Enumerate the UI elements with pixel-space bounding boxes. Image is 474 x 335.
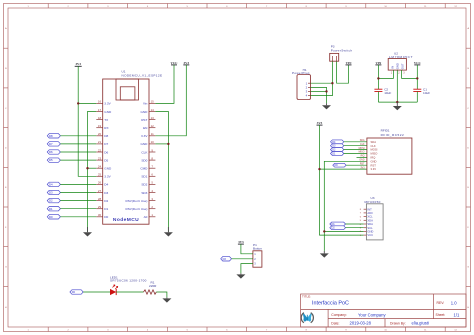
svg-text:14: 14: [151, 108, 155, 112]
svg-text:GND: GND: [104, 167, 112, 171]
U1 pin 2 (RSV(Don&#39;t Use)) right: [125, 205, 155, 211]
svg-text:Company:: Company:: [331, 313, 347, 317]
svg-text:LM78M05CT: LM78M05CT: [389, 55, 413, 59]
wire plug gnd pins: [311, 87, 327, 103]
svg-text:TX: TX: [104, 118, 108, 122]
svg-text:Drawn By:: Drawn By:: [390, 321, 406, 325]
svg-text:D3: D3: [49, 191, 53, 195]
wire VCC to pin15: [155, 65, 174, 104]
svg-text:PowerPlug: PowerPlug: [292, 71, 310, 75]
svg-text:GND: GND: [395, 63, 399, 69]
wire port D8 to U1: [60, 135, 96, 137]
port D2: [47, 198, 60, 202]
power port 3V3 (button): [238, 240, 244, 244]
port D3 (button): [221, 257, 232, 261]
svg-text:IN: IN: [390, 66, 394, 69]
svg-text:D8: D8: [49, 134, 53, 138]
ground (left rail): [83, 227, 92, 237]
U3 pin XCL: [360, 215, 373, 219]
U3 pin SCL: [360, 226, 373, 230]
svg-text:D7: D7: [104, 142, 108, 146]
svg-text:D5: D5: [49, 158, 53, 162]
svg-text:SR75UC06 1200-1700: SR75UC06 1200-1700: [110, 279, 147, 283]
svg-text:GND: GND: [141, 110, 149, 114]
wire port to button pin2: [232, 258, 253, 260]
svg-text:MOSI: MOSI: [359, 148, 365, 150]
svg-text:20: 20: [98, 132, 102, 136]
U1 pin 9 (CLK) right: [141, 148, 155, 154]
svg-text:CLK: CLK: [360, 144, 365, 146]
wire rfid MOSI: [344, 149, 367, 151]
U1 pin 30 (D0) left: [96, 213, 108, 219]
power port VCC (reg output): [414, 61, 422, 65]
U1 pin 11 (3.3V) right: [141, 132, 155, 138]
U1 pin 24 (GND) left: [96, 165, 112, 171]
wire GND rail right: [155, 112, 168, 232]
wire 3V3 to pin11: [155, 65, 186, 136]
svg-text:SD3: SD3: [141, 191, 147, 195]
net label SDA: [360, 139, 365, 142]
wire port D4 to U1: [60, 183, 96, 185]
port D3 (rfid): [331, 144, 344, 148]
wire rfid RST: [346, 164, 367, 166]
U1 pin 13 (RST) right: [141, 116, 155, 122]
port D2 (mpu): [330, 226, 346, 230]
svg-text:MISO: MISO: [371, 152, 378, 156]
junction VIN/C2: [377, 77, 379, 79]
net label MISO: [359, 152, 365, 154]
svg-text:SDA: SDA: [367, 222, 373, 226]
svg-text:3.3V: 3.3V: [104, 102, 111, 106]
svg-text:REV:: REV:: [437, 301, 445, 305]
wire rfid IRQ stub: [357, 156, 367, 158]
U3 pin XDA: [360, 218, 373, 222]
U1 pin 7 (CMD) right: [140, 165, 155, 171]
U1 pin 5 (SD2) right: [141, 181, 155, 187]
svg-text:3V3: 3V3: [360, 167, 365, 169]
svg-text:INT: INT: [367, 207, 372, 211]
svg-text:D0: D0: [104, 215, 108, 219]
RFID1 pin IRQ: [371, 156, 376, 160]
port D4: [47, 182, 60, 186]
junction GND/pin10: [167, 143, 169, 145]
svg-text:3V3: 3V3: [75, 62, 81, 66]
port D0: [47, 215, 60, 219]
svg-text:3.3V: 3.3V: [371, 167, 377, 171]
port D1 (rfid): [331, 152, 344, 156]
svg-text:2019-03-28: 2019-03-28: [350, 321, 372, 326]
wire gnd rail under U2: [378, 70, 417, 102]
power port 3V3 (right): [183, 61, 189, 65]
svg-text:3V3: 3V3: [184, 61, 190, 65]
ground (right rail): [164, 227, 173, 237]
svg-text:G: G: [467, 267, 469, 269]
date cell: [331, 321, 429, 326]
svg-text:1.0: 1.0: [451, 300, 457, 305]
C2 labels: [384, 88, 391, 96]
port D4 (rfid): [331, 140, 344, 144]
svg-text:CMD: CMD: [140, 167, 148, 171]
junction plug pin1: [331, 82, 333, 84]
svg-text:XCL: XCL: [367, 215, 373, 219]
svg-text:16: 16: [98, 100, 102, 104]
svg-text:D4: D4: [49, 183, 53, 187]
svg-text:SDA: SDA: [360, 139, 365, 142]
wire mpu D2: [346, 227, 364, 229]
net label MOSI: [359, 148, 365, 150]
svg-text:MISO: MISO: [359, 152, 365, 154]
sensor U3 MPU6050 body: [366, 204, 383, 240]
svg-text:28: 28: [98, 197, 102, 201]
svg-text:elia.giusti: elia.giusti: [412, 321, 430, 326]
wire VIN to U2 IN: [378, 65, 393, 89]
svg-text:PowerSwitch: PowerSwitch: [331, 48, 353, 52]
junction GND/pin24: [86, 167, 88, 169]
wire port D0 to U1: [60, 216, 96, 218]
svg-text:RST: RST: [360, 163, 365, 165]
ground (button): [236, 273, 245, 278]
svg-text:SCL: SCL: [367, 226, 373, 230]
svg-text:D8: D8: [104, 134, 108, 138]
RFID1 module body: [367, 138, 412, 174]
U3 pin INT: [360, 207, 372, 211]
wire port D6 to U1: [60, 151, 96, 153]
svg-text:RST: RST: [371, 163, 377, 167]
U1 pin 8 (SD0) right: [141, 156, 155, 162]
svg-text:OUT: OUT: [400, 63, 404, 69]
RFID1 pin SDA: [371, 140, 377, 144]
P3 designator: [331, 45, 353, 53]
R1 designator: [149, 281, 157, 289]
U1 pin 20 (D8) left: [96, 132, 108, 138]
port D7: [47, 142, 60, 146]
U3 pin VCC: [360, 233, 373, 237]
wire switch to VIN: [337, 61, 349, 83]
junction U2 GND: [396, 101, 398, 103]
svg-text:GND: GND: [359, 160, 364, 162]
RFID1 pin CLK: [371, 144, 376, 148]
junction VCC/C1: [416, 77, 418, 79]
RFID1 pin 3.3V: [371, 167, 377, 171]
svg-text:IRQ: IRQ: [371, 156, 376, 160]
svg-text:D6: D6: [104, 150, 108, 154]
U1 pin 3 (RSV(Don&#39;t Use)) right: [125, 197, 155, 203]
LED1 designator: [110, 275, 147, 282]
svg-text:12: 12: [151, 124, 155, 128]
company cell: [331, 312, 386, 317]
power port VCC: [171, 61, 179, 65]
U1 pin 25 (3.3V) left: [96, 173, 111, 179]
svg-text:Button: Button: [253, 247, 262, 251]
port D0 (rfid rst): [333, 163, 346, 167]
power port 3V3 (rfid rail): [317, 121, 323, 125]
port D5: [47, 158, 60, 162]
U1 pin 12 (EN) right: [143, 124, 155, 130]
svg-text:25: 25: [98, 173, 102, 177]
wire port to LED1: [83, 291, 110, 293]
svg-text:22: 22: [98, 148, 102, 152]
svg-text:24: 24: [98, 165, 102, 169]
ground (led): [162, 297, 171, 302]
svg-text:D6: D6: [49, 150, 53, 154]
svg-text:G: G: [5, 267, 7, 269]
U3 designator: [365, 196, 381, 204]
svg-text:D0: D0: [49, 215, 53, 219]
svg-text:10uF: 10uF: [384, 91, 391, 95]
svg-text:RST: RST: [141, 118, 147, 122]
net label RST: [360, 163, 365, 165]
svg-text:13: 13: [151, 116, 155, 120]
port D1: [47, 207, 60, 211]
P1 designator: [253, 243, 262, 250]
svg-text:RSV(Don't Use): RSV(Don't Use): [125, 199, 147, 203]
svg-text:MOSI: MOSI: [371, 148, 378, 152]
wire button pin3 to gnd: [241, 264, 253, 274]
wire R1 to gnd: [156, 292, 167, 297]
wire port D5 to U1: [60, 159, 96, 161]
svg-text:19: 19: [98, 124, 102, 128]
wire rfid SDA: [344, 141, 367, 143]
U1 pin 4 (SD3) right: [141, 189, 155, 195]
svg-text:3.3V: 3.3V: [141, 134, 148, 138]
wire rfid MISO: [344, 153, 367, 155]
svg-text:3V3: 3V3: [238, 240, 244, 244]
svg-text:RSV(Don't Use): RSV(Don't Use): [125, 207, 147, 211]
svg-text:D7: D7: [49, 142, 53, 146]
svg-text:21: 21: [98, 140, 102, 144]
U2 pin numbers: [391, 72, 406, 75]
port D8: [47, 134, 60, 138]
svg-text:IRQ: IRQ: [360, 156, 364, 158]
svg-text:SD0: SD0: [141, 158, 147, 162]
wire plug pin1 to switch: [311, 61, 333, 95]
port D0 (led): [70, 290, 83, 294]
svg-text:CLK: CLK: [371, 144, 376, 148]
capacitor C1: [413, 89, 421, 91]
ground (regulator): [393, 102, 402, 110]
svg-text:Interfaccia PoC: Interfaccia PoC: [312, 301, 349, 307]
RFID1 designator: [381, 129, 405, 137]
U1 pin 19 (RX) left: [96, 124, 108, 130]
wire 3V3 to button pin1: [241, 244, 253, 254]
junction gnd/mpu: [323, 230, 325, 232]
svg-text:D5: D5: [104, 158, 108, 162]
wire 3V3 rail (rfid/mpu): [320, 125, 367, 235]
svg-text:RFID_RC522: RFID_RC522: [381, 133, 405, 137]
svg-text:GND: GND: [104, 110, 112, 114]
svg-text:GND: GND: [141, 142, 149, 146]
U3 pin GND: [360, 230, 374, 234]
port D6: [47, 150, 60, 154]
svg-text:NodeMCU: NodeMCU: [113, 217, 139, 223]
power port VIN (reg input): [375, 61, 382, 65]
ground (rfid/mpu rail): [320, 251, 329, 258]
svg-text:15: 15: [151, 100, 155, 104]
U3 pin SDA: [360, 222, 373, 226]
junction 3V3/pin16: [77, 102, 79, 104]
wire port D1 to U1: [60, 208, 96, 210]
wire U2 OUT to VCC: [402, 65, 418, 89]
U1 pin 26 (D4) left: [96, 181, 108, 187]
wire port D7 to U1: [60, 143, 96, 145]
wire gnd rail (rfid/mpu): [324, 161, 367, 251]
svg-text:GND: GND: [371, 159, 377, 163]
svg-text:D2: D2: [49, 199, 53, 203]
svg-text:A0: A0: [144, 215, 148, 219]
U1 pin 17 (GND) left: [96, 108, 112, 114]
U1 pin 21 (D7) left: [96, 140, 108, 146]
svg-text:D2: D2: [104, 199, 108, 203]
U1 pin 27 (D3) left: [96, 189, 108, 195]
svg-text:27: 27: [98, 189, 102, 193]
U1 pin 22 (D6) left: [96, 148, 108, 154]
U1 pin 28 (D2) left: [96, 197, 108, 203]
wire rfid CLK: [344, 145, 367, 147]
svg-text:XDA: XDA: [367, 218, 373, 222]
title text: [302, 295, 349, 307]
svg-text:29: 29: [98, 205, 102, 209]
company logo butterfly: [301, 313, 313, 323]
U1 pin 23 (D5) left: [96, 156, 108, 162]
RFID1 pin MISO: [371, 152, 378, 156]
svg-text:3V3: 3V3: [317, 121, 323, 125]
switch P3 PowerSwitch: [330, 53, 339, 61]
op-amp U1 NodeMCU module body: [103, 79, 149, 224]
svg-text:TITLE:: TITLE:: [302, 295, 311, 299]
wire LED1 to R1: [116, 291, 143, 293]
net label CLK: [360, 144, 365, 146]
U1 pin 16 (3.3V) left: [96, 100, 111, 106]
junction 3V3/rfid: [318, 168, 320, 170]
svg-text:VCC: VCC: [367, 233, 373, 237]
svg-text:220R: 220R: [149, 284, 157, 288]
connector H1 PowerPlug: [297, 75, 311, 100]
svg-text:18: 18: [98, 116, 102, 120]
H1 designator: [292, 68, 310, 75]
svg-text:Your Company: Your Company: [358, 312, 386, 317]
svg-text:Date:: Date:: [331, 321, 339, 325]
U1 pin 18 (TX) left: [96, 116, 108, 122]
regulator U2 LM78M05CT: [388, 59, 406, 71]
svg-text:30: 30: [98, 213, 102, 217]
svg-text:11: 11: [151, 132, 154, 136]
capacitor C2: [374, 89, 382, 91]
wire mpu D1: [346, 223, 364, 225]
svg-text:10uF: 10uF: [423, 91, 430, 95]
port D1 (mpu): [330, 222, 346, 226]
svg-text:Vin: Vin: [143, 102, 148, 106]
wire port D3 to U1: [60, 192, 96, 194]
svg-text:10: 10: [151, 140, 155, 144]
U1 pin 29 (D1) left: [96, 205, 108, 211]
net label IRQ: [360, 156, 364, 158]
port D3: [47, 190, 60, 194]
svg-text:AD0: AD0: [367, 211, 373, 215]
svg-text:26: 26: [98, 181, 102, 185]
C1 labels: [423, 88, 430, 96]
switch P1 Button body: [253, 251, 262, 267]
svg-text:SDA: SDA: [371, 140, 377, 144]
wire GND rail left: [88, 112, 97, 232]
U1 designator: [122, 70, 163, 78]
resistor R1: [144, 290, 157, 294]
U3 pin AD0: [360, 211, 373, 215]
svg-text:D1: D1: [104, 207, 108, 211]
svg-text:Sheet:: Sheet:: [436, 313, 446, 317]
svg-text:D3: D3: [104, 191, 108, 195]
svg-text:VCC: VCC: [414, 61, 422, 65]
U1 pin 6 (SD1) right: [141, 173, 155, 179]
svg-text:VCC: VCC: [171, 61, 179, 65]
port D2 (rfid): [331, 148, 344, 152]
RFID1 pin RST: [371, 163, 377, 167]
svg-text:3.3V: 3.3V: [104, 175, 111, 179]
svg-text:RX: RX: [104, 126, 108, 130]
svg-text:GND: GND: [367, 230, 373, 234]
U1 pin 10 (GND) right: [141, 140, 156, 146]
ground (power plug): [322, 103, 331, 109]
svg-text:17: 17: [98, 108, 102, 112]
rev cell: [437, 300, 458, 305]
svg-text:NODEMCU_V1_ESP12E: NODEMCU_V1_ESP12E: [122, 74, 163, 78]
sheet cell: [436, 312, 460, 317]
title block: [301, 294, 466, 327]
power port VIN (switch): [346, 61, 353, 65]
svg-text:VIN: VIN: [375, 61, 382, 65]
svg-text:VIN: VIN: [346, 61, 353, 65]
svg-text:MPU6050: MPU6050: [365, 200, 381, 204]
RFID1 pin GND: [371, 159, 377, 163]
svg-text:D4: D4: [104, 183, 108, 187]
U1 pin 15 (Vin) right: [143, 100, 155, 106]
net label 3V3: [360, 167, 365, 169]
svg-text:D1: D1: [49, 207, 53, 211]
svg-text:SD2: SD2: [141, 183, 147, 187]
junction plug pin3: [325, 90, 327, 92]
wire 3V3 rail left: [78, 66, 96, 176]
RFID1 pin MOSI: [371, 148, 378, 152]
U2 designator: [389, 52, 413, 59]
svg-text:SD1: SD1: [141, 175, 147, 179]
svg-text:1/1: 1/1: [454, 312, 460, 317]
LED LED1: [110, 285, 118, 295]
U1 pin 14 (GND) right: [141, 108, 156, 114]
svg-text:CLK: CLK: [141, 150, 148, 154]
wire port D2 to U1: [60, 200, 96, 202]
svg-text:23: 23: [98, 156, 102, 160]
net label GND: [359, 160, 364, 162]
power port 3V3 (left): [75, 62, 82, 67]
U1 pin 1 (A0) right: [144, 213, 156, 219]
svg-text:EN: EN: [143, 126, 147, 130]
